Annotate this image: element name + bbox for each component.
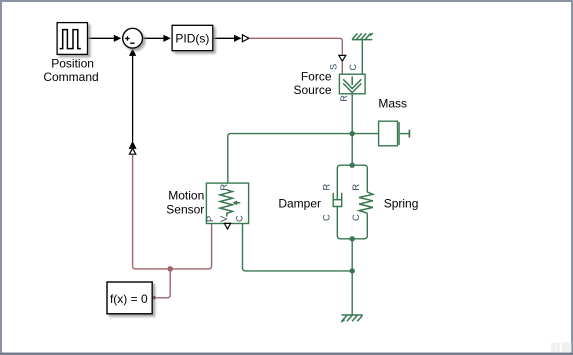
wire: PID to Simulink-PS converter [213, 37, 235, 39]
svg-text:C: C [234, 215, 244, 222]
damper-spring parallel frame right rail [352, 165, 367, 239]
svg-text:Position: Position [51, 57, 94, 71]
svg-text:Source: Source [293, 83, 331, 97]
wire: horizontal main line to Mass and left to Motion Sensor [228, 134, 379, 183]
f(x)=0 solver block [107, 282, 152, 314]
minus sign [130, 42, 134, 44]
svg-text:C: C [351, 214, 361, 221]
Motion Sensor block [206, 183, 248, 223]
motion sensor arrow icon [237, 202, 241, 204]
svg-text:Motion: Motion [168, 188, 204, 202]
converter hollow triangle [242, 35, 249, 42]
top ground (mechanical reference) [352, 33, 373, 39]
junction dot damper-spring bottom [350, 236, 355, 241]
wire: maroon from junction down to f(x)=0 [155, 269, 170, 298]
Force Source block [339, 74, 365, 94]
wire: bottom junction to ground [351, 239, 353, 315]
svg-text:P: P [205, 216, 215, 222]
pulse waveform icon [60, 30, 81, 49]
junction dot bottom rail [350, 268, 355, 273]
Mass block [379, 121, 398, 146]
PS-Simulink converter filled triangle [129, 141, 137, 149]
damper icon [333, 193, 342, 207]
svg-text:C: C [348, 64, 358, 71]
badge boxes bottom right [551, 343, 571, 353]
pulse generator block Position Command [57, 23, 87, 55]
svg-text:Damper: Damper [278, 197, 321, 211]
force source arrow icon [343, 76, 361, 92]
svg-text:V: V [219, 215, 229, 222]
svg-text:R: R [219, 184, 229, 191]
wire: sum to PID [143, 37, 165, 39]
wire: Motion Sensor C to bottom junction [243, 224, 353, 271]
hollow PS port triangle at S [339, 55, 346, 61]
svg-text:Sensor: Sensor [166, 202, 204, 216]
unconnected port triangle below V [224, 223, 230, 229]
svg-text:Force: Force [301, 70, 332, 84]
wire: pulse generator to sum [88, 37, 115, 39]
PS-Simulink converter hollow triangle [129, 148, 135, 154]
svg-text:R: R [322, 184, 332, 191]
converter filled arrowhead [234, 35, 242, 42]
svg-text:Mass: Mass [378, 97, 407, 111]
arrowhead into PID [163, 35, 171, 42]
wire: top ground to Force Source C [361, 40, 363, 74]
canvas frame bottom dark line [0, 353, 573, 355]
f(x)=0 port square [152, 296, 155, 299]
wire: Force Source R down to main junction [351, 94, 353, 134]
mass rod T-bar [408, 130, 410, 138]
svg-text:R: R [351, 184, 361, 191]
svg-text:PID(s): PID(s) [175, 32, 209, 46]
PID block [172, 25, 213, 50]
wire: triangle to Force Source S [341, 61, 343, 74]
junction dot maroon [167, 266, 173, 272]
svg-text:f(x) = 0: f(x) = 0 [110, 292, 148, 306]
junction dot green main [350, 131, 355, 136]
junction dot damper-spring top [350, 163, 355, 168]
sum block [123, 28, 143, 48]
motion sensor zigzag icon [220, 190, 232, 217]
svg-text:R: R [339, 95, 349, 102]
wire: maroon feedback from converter down and across [133, 155, 212, 269]
spring icon [359, 192, 373, 213]
arrowhead into sum [114, 35, 122, 42]
svg-text:C: C [322, 214, 332, 221]
wire: feedback black vertical into sum [132, 56, 134, 142]
damper-spring parallel frame left rail [337, 165, 352, 239]
arrowhead into sum bottom [129, 48, 136, 56]
wire: PS signal converter to Force Source S port (maroon) [249, 38, 342, 55]
mass right double line [398, 122, 400, 145]
svg-text:Spring: Spring [384, 197, 419, 211]
svg-text:Command: Command [43, 70, 98, 84]
mass rod [400, 133, 409, 135]
bottom ground (mechanical reference) [341, 315, 362, 322]
plus sign [125, 36, 129, 40]
wire: main junction down to damper-spring top [351, 134, 353, 166]
